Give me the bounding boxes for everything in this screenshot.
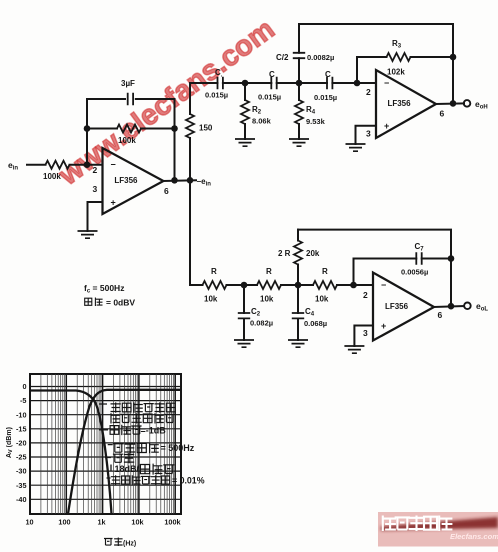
wire RL1 to RL2 bbox=[227, 284, 258, 286]
svg-text:9.53k: 9.53k bbox=[306, 117, 326, 126]
wire C2 to C3 bbox=[277, 82, 327, 84]
wire input to R bbox=[27, 164, 46, 166]
svg-text:2: 2 bbox=[366, 87, 371, 97]
svg-text:0: 0 bbox=[22, 382, 26, 391]
junction C4 node bbox=[295, 282, 302, 289]
svg-text:102k: 102k bbox=[387, 68, 405, 77]
svg-text:-40: -40 bbox=[16, 495, 27, 504]
junction op3 output node bbox=[448, 303, 455, 310]
svg-text:R3: R3 bbox=[392, 39, 402, 50]
annotation line1 capacitor tolerance bbox=[111, 402, 176, 412]
svg-text:10: 10 bbox=[25, 518, 33, 527]
svg-text:100: 100 bbox=[58, 518, 70, 527]
svg-text:(Hz): (Hz) bbox=[123, 541, 136, 548]
wire C4 stem bbox=[297, 285, 299, 340]
svg-text:20k: 20k bbox=[306, 249, 320, 258]
capacitor C4 0.068u bbox=[292, 313, 304, 318]
svg-text:0.015µ: 0.015µ bbox=[258, 93, 281, 102]
wire C7 feedback bbox=[354, 259, 452, 286]
svg-text:-5: -5 bbox=[20, 396, 27, 405]
svg-text:R2: R2 bbox=[252, 105, 262, 116]
junction op2 output node bbox=[450, 100, 457, 107]
wire op1 pin3 bbox=[88, 202, 103, 231]
svg-text:LF356: LF356 bbox=[385, 302, 409, 311]
graph x-axis title freq(Hz) bbox=[104, 538, 123, 547]
svg-text:C7: C7 bbox=[415, 242, 425, 253]
svg-text:150: 150 bbox=[199, 124, 213, 133]
svg-text:0.0082µ: 0.0082µ bbox=[307, 53, 334, 62]
ground C2 bbox=[234, 340, 254, 347]
resistor R2 8.06k bbox=[241, 100, 249, 124]
wire op2 output bbox=[436, 102, 464, 105]
capacitor C2hp 0.015u bbox=[271, 77, 276, 89]
junction R2 node bbox=[242, 80, 249, 87]
capacitor C7 0.0056u bbox=[416, 252, 421, 264]
op-amp U2 LF356 bbox=[366, 70, 445, 139]
svg-text:= 0dBV: = 0dBV bbox=[106, 298, 135, 308]
svg-text:-20: -20 bbox=[16, 439, 27, 448]
resistor R4 9.53k bbox=[295, 100, 303, 124]
graph minor vertical gridlines bbox=[41, 374, 174, 514]
junction R3 output node bbox=[450, 54, 457, 61]
wire op3 output bbox=[434, 306, 464, 307]
svg-text:−: − bbox=[384, 78, 389, 88]
graph horizontal gridlines bbox=[30, 387, 181, 500]
svg-text:100k: 100k bbox=[118, 136, 136, 145]
svg-text:+: + bbox=[381, 321, 386, 331]
svg-text:10k: 10k bbox=[131, 518, 144, 527]
wire 2R stems bbox=[297, 230, 299, 285]
resistor RL1 10k bbox=[203, 281, 227, 289]
capacitor C3hp 0.015u bbox=[327, 77, 332, 89]
ground op1 bbox=[78, 231, 98, 238]
svg-text:−ein: −ein bbox=[197, 177, 212, 188]
svg-text:AV (dBm): AV (dBm) bbox=[6, 427, 14, 458]
svg-text:3: 3 bbox=[363, 328, 368, 338]
svg-text:-30: -30 bbox=[16, 467, 27, 476]
svg-text:eoL: eoL bbox=[476, 301, 488, 313]
op-amp U1 LF356 bbox=[93, 148, 170, 214]
resistor R3 102k bbox=[387, 53, 411, 61]
svg-text:0.0056µ: 0.0056µ bbox=[401, 268, 428, 277]
ground op3 bbox=[344, 346, 364, 353]
junction op2 feedback node bbox=[354, 80, 361, 87]
wire RL2 to RL3 bbox=[281, 284, 313, 286]
wire LP branch long vertical bbox=[190, 180, 203, 285]
wire 150 to HP rail bbox=[190, 83, 218, 114]
svg-text:eoH: eoH bbox=[475, 99, 488, 111]
logo chinese characters dianzifashaoyou bbox=[383, 516, 453, 532]
wire R4 stem bbox=[298, 83, 300, 139]
wire C2 stem bbox=[243, 285, 245, 340]
svg-text:C2: C2 bbox=[251, 307, 261, 318]
junction feedback left bbox=[84, 125, 91, 132]
ground R4 bbox=[289, 139, 309, 146]
svg-text:R4: R4 bbox=[306, 105, 316, 116]
svg-text:ein: ein bbox=[8, 160, 18, 172]
graph major vertical gridlines bbox=[66, 374, 175, 514]
svg-text:10k: 10k bbox=[204, 295, 218, 304]
svg-text:6: 6 bbox=[164, 186, 169, 196]
svg-text:3µF: 3µF bbox=[121, 79, 135, 88]
svg-text:= 0.01%: = 0.01% bbox=[172, 476, 205, 486]
wire LP top rail bbox=[298, 230, 451, 306]
svg-text:10k: 10k bbox=[260, 295, 274, 304]
svg-text:0.015µ: 0.015µ bbox=[205, 91, 228, 100]
svg-text:Elecfans.com: Elecfans.com bbox=[450, 532, 498, 541]
annotation line3 gain error -1dB bbox=[110, 425, 142, 435]
svg-text:=-1dB: =-1dB bbox=[141, 426, 167, 436]
junction C7 output node bbox=[448, 255, 455, 262]
graph frame bbox=[30, 374, 181, 514]
wire op1 output bbox=[163, 179, 196, 182]
svg-text:10k: 10k bbox=[315, 295, 329, 304]
svg-text:-25: -25 bbox=[16, 453, 27, 462]
svg-text:2: 2 bbox=[93, 165, 98, 175]
svg-text:fc = 500Hz: fc = 500Hz bbox=[84, 283, 124, 295]
wire op2 pin3 bbox=[356, 126, 377, 144]
capacitor 3uF bbox=[128, 93, 133, 105]
svg-text:C4: C4 bbox=[305, 307, 315, 318]
capacitor C/2 0.0082u bbox=[293, 53, 305, 58]
annotation line7 max harmonic distortion bbox=[111, 475, 170, 485]
junction -ein node bbox=[187, 177, 194, 184]
capacitor C1 0.015u bbox=[218, 77, 223, 89]
svg-text:LF356: LF356 bbox=[387, 99, 411, 108]
resistor 100k feedback bbox=[117, 125, 141, 133]
resistor 150 bbox=[186, 114, 194, 138]
annotation line5 slope bbox=[113, 453, 134, 463]
svg-text:= 500Hz: = 500Hz bbox=[161, 443, 195, 453]
wire R2 stem bbox=[244, 83, 246, 139]
ground op2 bbox=[346, 144, 366, 151]
svg-text:18dB/: 18dB/ bbox=[115, 464, 140, 474]
resistor RL2 10k bbox=[257, 281, 281, 289]
svg-text:C: C bbox=[269, 70, 275, 79]
svg-text:-10: -10 bbox=[16, 410, 27, 419]
svg-text:LF356: LF356 bbox=[114, 176, 138, 185]
junction feedback to output bbox=[171, 177, 178, 184]
wire R to op-amp pin2 bbox=[70, 164, 103, 166]
wire 3uF feedback top bbox=[87, 98, 175, 100]
logo dark red band bbox=[381, 517, 498, 531]
annotation leader marks bbox=[99, 404, 113, 478]
svg-text:100k: 100k bbox=[43, 172, 61, 181]
svg-text:100k: 100k bbox=[164, 518, 181, 527]
svg-text:0.068µ: 0.068µ bbox=[304, 319, 327, 328]
resistor RL3 10k bbox=[313, 281, 337, 289]
wire HP branch vertical with corner bbox=[189, 138, 191, 180]
svg-text:−: − bbox=[381, 280, 386, 290]
op-amp U3 LF356 bbox=[363, 273, 443, 341]
svg-text:R: R bbox=[322, 267, 328, 276]
curve high-pass response bbox=[68, 390, 181, 514]
svg-text:-15: -15 bbox=[16, 424, 27, 433]
annotation line4 crossover freq 500Hz bbox=[113, 443, 159, 454]
wire C half stem bbox=[298, 24, 300, 83]
svg-text:-35: -35 bbox=[16, 481, 27, 490]
svg-text:0.082µ: 0.082µ bbox=[250, 319, 273, 328]
wire C3 to op2 pin2 bbox=[332, 82, 376, 84]
annotation line2 caused high-pass gain bbox=[111, 413, 175, 423]
svg-text:3: 3 bbox=[93, 184, 98, 194]
wire RL3 to op3 pin2 bbox=[337, 284, 373, 286]
wire feedback left vertical bbox=[86, 99, 88, 165]
junction C2 node bbox=[241, 282, 248, 289]
resistor 2R 20k bbox=[294, 241, 302, 265]
wire R3 feedback bbox=[357, 57, 453, 83]
junction op3 feedback node bbox=[350, 282, 357, 289]
wire C1 to C2 bbox=[223, 82, 271, 84]
svg-text:2 R: 2 R bbox=[278, 249, 291, 258]
svg-text:C: C bbox=[325, 70, 331, 79]
ground R2 bbox=[235, 139, 255, 146]
svg-text:1k: 1k bbox=[97, 518, 106, 527]
svg-text:−: − bbox=[111, 160, 116, 170]
wire HP top rail bbox=[299, 24, 453, 103]
logo background bbox=[378, 512, 498, 547]
curve low-pass response bbox=[30, 391, 112, 515]
svg-text:2: 2 bbox=[363, 290, 368, 300]
terminal e_oL bbox=[464, 303, 471, 310]
svg-text:R: R bbox=[266, 267, 272, 276]
wire op3 pin3 bbox=[354, 326, 373, 347]
svg-text:R: R bbox=[211, 267, 217, 276]
ground C4 bbox=[288, 340, 308, 347]
svg-text:8.06k: 8.06k bbox=[252, 117, 272, 126]
note gain 0dBV bbox=[85, 298, 103, 307]
resistor 100k input bbox=[46, 161, 70, 169]
wire 100k feedback bbox=[87, 128, 175, 130]
svg-text:+: + bbox=[384, 121, 389, 131]
terminal e_oH bbox=[464, 100, 471, 107]
junction R4 node bbox=[296, 80, 303, 87]
junction input/feedback node bbox=[84, 161, 91, 168]
svg-text:3: 3 bbox=[366, 129, 371, 139]
svg-text:0.015µ: 0.015µ bbox=[314, 93, 337, 102]
svg-text:6: 6 bbox=[438, 310, 443, 320]
wire feedback right vertical bbox=[174, 99, 176, 180]
svg-text:6: 6 bbox=[440, 109, 445, 119]
capacitor C2 0.082u bbox=[238, 313, 250, 318]
svg-text:C/2: C/2 bbox=[276, 53, 289, 62]
svg-text:+: + bbox=[111, 198, 116, 208]
junction feedback right bbox=[171, 125, 178, 132]
